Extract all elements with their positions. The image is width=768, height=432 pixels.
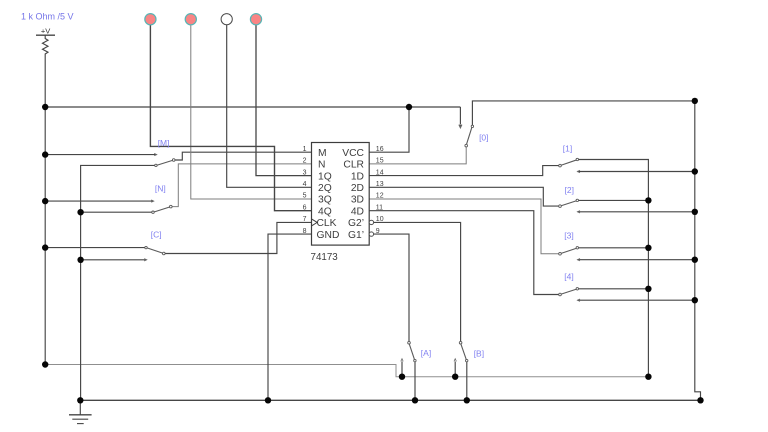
svg-text:9: 9: [376, 228, 380, 235]
svg-text:14: 14: [376, 169, 384, 176]
svg-text:2Q: 2Q: [318, 183, 332, 194]
svg-text:16: 16: [376, 146, 384, 153]
svg-text:M: M: [318, 148, 327, 159]
svg-text:10: 10: [376, 216, 384, 223]
svg-text:7: 7: [303, 216, 307, 223]
svg-text:5: 5: [303, 193, 307, 200]
svg-text:15: 15: [376, 158, 384, 165]
svg-text:1 k Ohm /5 V: 1 k Ohm /5 V: [21, 12, 74, 22]
svg-text:6: 6: [303, 204, 307, 211]
svg-text:3Q: 3Q: [318, 195, 332, 206]
svg-text:[0]: [0]: [479, 133, 488, 143]
svg-text:4D: 4D: [351, 206, 364, 217]
svg-text:2: 2: [303, 158, 307, 165]
svg-text:4: 4: [303, 181, 307, 188]
svg-text:1Q: 1Q: [318, 171, 332, 182]
svg-text:G2’: G2’: [348, 218, 364, 229]
svg-text:N: N: [318, 160, 325, 171]
svg-text:74173: 74173: [311, 252, 339, 263]
svg-text:[A]: [A]: [421, 348, 431, 358]
svg-text:3: 3: [303, 169, 307, 176]
svg-text:[M]: [M]: [158, 138, 170, 148]
svg-text:8: 8: [303, 228, 307, 235]
svg-text:1: 1: [303, 146, 307, 153]
svg-text:[1]: [1]: [563, 144, 572, 154]
svg-text:[3]: [3]: [564, 231, 573, 241]
svg-text:[B]: [B]: [474, 348, 484, 358]
svg-text:G1’: G1’: [348, 230, 364, 241]
svg-text:12: 12: [376, 193, 384, 200]
svg-text:[N]: [N]: [155, 184, 166, 194]
svg-text:3D: 3D: [351, 195, 364, 206]
svg-text:11: 11: [376, 204, 383, 211]
svg-text:CLK: CLK: [317, 218, 337, 229]
svg-text:[C]: [C]: [151, 230, 162, 240]
svg-text:13: 13: [376, 181, 384, 188]
svg-text:[2]: [2]: [565, 185, 574, 195]
svg-text:VCC: VCC: [342, 148, 364, 159]
svg-text:[4]: [4]: [564, 272, 573, 282]
svg-text:1D: 1D: [351, 171, 364, 182]
svg-text:GND: GND: [317, 230, 340, 241]
svg-text:CLR: CLR: [343, 160, 364, 171]
svg-text:2D: 2D: [351, 183, 364, 194]
svg-text:+V: +V: [41, 27, 50, 36]
svg-text:4Q: 4Q: [318, 206, 332, 217]
